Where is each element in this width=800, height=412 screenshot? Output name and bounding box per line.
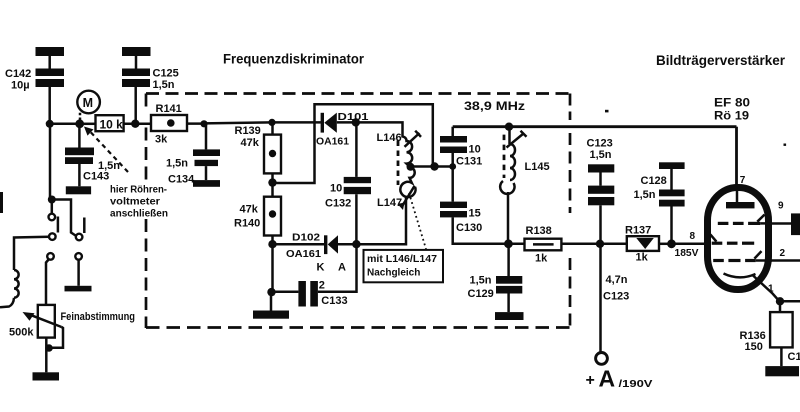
wire grid rail to tube	[453, 125, 737, 128]
dashed box left edge	[145, 94, 148, 329]
svg-text:C123: C123	[603, 291, 629, 303]
wire C133 node to ground	[270, 292, 273, 310]
wire divider to riser	[273, 104, 433, 183]
svg-text:1,5n: 1,5n	[153, 79, 175, 91]
potentiometer 500k	[23, 305, 62, 338]
wire R137 to C128 node	[659, 243, 672, 246]
ground above C142	[36, 47, 65, 56]
switch contact E	[75, 253, 82, 260]
node A junction	[46, 120, 54, 128]
resistor R139	[264, 135, 281, 174]
ground below contact E	[65, 286, 92, 292]
wire R138 to C123 node	[561, 243, 600, 246]
wire tap to C131 C130 node	[411, 165, 453, 168]
svg-text:47k: 47k	[240, 204, 259, 216]
svg-text:R140: R140	[234, 217, 260, 229]
junction D102 node	[268, 240, 276, 248]
switch blade left	[57, 217, 60, 233]
label C134 value	[166, 157, 195, 185]
svg-text:1,5n: 1,5n	[634, 189, 656, 201]
wire R139 to R140	[271, 173, 274, 196]
junction cathode node	[776, 297, 784, 305]
wire ground to C125	[135, 56, 138, 69]
tube grid g1	[713, 251, 772, 262]
svg-text:1k: 1k	[636, 252, 649, 264]
svg-text:C123: C123	[587, 137, 613, 149]
label R139 value	[235, 125, 261, 149]
wire ground to C128	[670, 169, 673, 190]
wire D102 node row	[273, 243, 325, 246]
svg-text:OA161: OA161	[286, 248, 321, 260]
svg-text:38,9 MHz: 38,9 MHz	[464, 101, 525, 113]
junction C128 node	[667, 239, 676, 248]
resistor 10k box	[96, 115, 124, 132]
svg-text:C142: C142	[5, 68, 31, 80]
wire rail to R139 node	[204, 122, 273, 123]
svg-text:R141: R141	[156, 103, 182, 115]
junction C123 node	[596, 240, 604, 248]
svg-text:Bildträgerverstärker: Bildträgerverstärker	[656, 53, 786, 68]
switch contact B	[49, 233, 56, 240]
label C131 value	[456, 144, 482, 168]
terminal +A	[596, 353, 608, 365]
svg-text:1,5n: 1,5n	[470, 274, 492, 286]
junction C133 node	[267, 288, 275, 296]
svg-text:C125: C125	[153, 67, 179, 79]
junction C134 node	[200, 120, 207, 127]
svg-text:C12: C12	[788, 351, 800, 363]
svg-text:185V: 185V	[675, 248, 699, 259]
inductor L145	[500, 127, 526, 194]
junction C129 node	[504, 239, 513, 248]
wire L145 to bottom rail	[507, 192, 510, 244]
wire C129 stem	[507, 244, 510, 276]
junction C131 C130	[449, 163, 456, 170]
wire R140 to D102 node	[271, 236, 274, 245]
wire C131 top to rail	[451, 127, 454, 136]
svg-text:150: 150	[745, 341, 763, 353]
svg-text:10: 10	[469, 144, 481, 156]
svg-text:A: A	[599, 366, 616, 392]
wire C142 to node A	[48, 87, 51, 124]
wire C132 to D102 node	[355, 194, 358, 244]
label C125 value	[153, 67, 179, 91]
svg-text:10: 10	[330, 183, 342, 195]
svg-text:R137: R137	[625, 225, 651, 237]
tube grid g2	[710, 234, 754, 244]
label D101 type	[316, 111, 369, 148]
wire node M down to C143	[78, 124, 81, 148]
adjustment core dashed L146 L147	[397, 141, 400, 186]
label C128 value	[634, 175, 667, 201]
ground below R140	[253, 311, 289, 319]
svg-text:1: 1	[768, 284, 774, 295]
meter point M	[77, 91, 100, 121]
svg-text:D102: D102	[292, 231, 320, 243]
svg-text:47k: 47k	[241, 137, 260, 149]
wire cathode node to right edge	[780, 300, 800, 303]
ground above C128	[659, 162, 685, 169]
wire D101 to C132 node	[337, 121, 356, 124]
wire pin 2 to right edge	[770, 259, 800, 262]
diode D102	[324, 235, 338, 254]
svg-text:15: 15	[469, 208, 481, 220]
svg-text:4,7n: 4,7n	[606, 274, 628, 286]
diode D101	[321, 113, 337, 133]
dashed arrow to measuring node	[84, 127, 128, 173]
label R141 value	[155, 103, 182, 146]
wire cathode node to R136	[779, 301, 782, 312]
junction R139 R140 divider	[268, 178, 276, 186]
wire potentiometer wiper tap	[49, 327, 63, 348]
svg-text:C129: C129	[468, 288, 494, 300]
label C130 value	[456, 208, 482, 235]
wire C132 stem	[355, 122, 358, 176]
inductor L146	[403, 131, 422, 167]
wire C133 right lead	[318, 244, 357, 292]
capacitor C133	[298, 281, 318, 307]
wire to R139	[271, 122, 274, 134]
capacitor C131	[440, 136, 467, 153]
wire C125 down to rail	[134, 87, 137, 124]
capacitor C128	[659, 190, 685, 207]
svg-text:C132: C132	[325, 198, 351, 210]
wire C130 top stem	[451, 167, 454, 202]
label D102 type	[286, 231, 321, 259]
wire node to R137	[600, 243, 627, 246]
capacitor C125	[122, 69, 150, 88]
note box mit L146/L147 Nachgleich	[364, 250, 444, 282]
svg-text:C133: C133	[321, 295, 347, 307]
label C132 value	[325, 183, 351, 210]
svg-text:mit L146/L147: mit L146/L147	[367, 254, 437, 265]
junction D102 anode node	[352, 240, 360, 248]
junction L145 top	[505, 123, 513, 131]
svg-text:2: 2	[780, 248, 786, 259]
svg-text:C128: C128	[641, 175, 667, 187]
label C129 value	[468, 274, 494, 300]
wire pin 9 to edge capacitor	[770, 222, 791, 225]
speck dot left of EF80	[605, 110, 609, 113]
svg-text:9: 9	[778, 200, 784, 211]
svg-text:hier Röhren-: hier Röhren-	[110, 184, 167, 195]
label R140 value	[234, 204, 260, 230]
capacitor C132	[344, 177, 371, 194]
wire coil to left edge	[0, 298, 14, 308]
tube anode	[726, 191, 755, 208]
tube cathode	[724, 274, 780, 302]
wire contact E to ground	[77, 260, 80, 286]
node M junction	[75, 119, 84, 128]
wire C129 to ground	[507, 294, 510, 313]
svg-text:L145: L145	[525, 161, 550, 173]
tube grid g3	[718, 215, 772, 225]
svg-text:1,5n: 1,5n	[590, 149, 612, 161]
svg-text:1k: 1k	[535, 253, 548, 265]
wire C143 to ground	[78, 164, 81, 186]
speck dot right	[784, 144, 787, 146]
wire C123 to node	[599, 205, 602, 244]
switch contact D	[47, 253, 54, 260]
resistor R136	[770, 312, 793, 347]
svg-text:3k: 3k	[155, 134, 168, 146]
junction L146 L147 tap	[407, 163, 415, 171]
clipped capacitor at right edge	[791, 213, 800, 235]
svg-text:A: A	[338, 261, 346, 273]
adjustment core dashed L145	[503, 135, 506, 178]
resistor R137	[627, 236, 659, 251]
wire node to tube pin 8	[672, 243, 707, 246]
svg-text:OA161: OA161	[316, 136, 349, 148]
wire ground to C123	[599, 173, 602, 186]
note hier Röhrenvoltmeter anschließen	[110, 184, 168, 219]
svg-text:8: 8	[690, 231, 696, 242]
wire rail to D101	[273, 121, 321, 124]
svg-text:K: K	[317, 261, 325, 273]
svg-text:10 k: 10 k	[100, 118, 124, 132]
capacitor C130	[440, 202, 467, 218]
wire node M to 10k	[80, 123, 96, 126]
capacitor C134	[193, 149, 220, 166]
wire C128 to node	[670, 207, 673, 244]
wire contact B to coil	[14, 237, 49, 270]
switch contact C	[76, 234, 83, 241]
clipped lead at left edge	[0, 192, 3, 213]
junction R139 top	[268, 119, 275, 126]
switch blade right	[83, 218, 86, 234]
junction riser tap	[430, 162, 438, 170]
label EF 80 Rö 19	[714, 98, 750, 123]
junction C132 node	[352, 118, 360, 126]
ground above C123	[588, 164, 614, 172]
junction wiper to bottom lead	[45, 344, 53, 352]
ground below C134	[193, 180, 220, 187]
svg-text:Nachgleich: Nachgleich	[367, 268, 420, 279]
label R136 value	[740, 330, 766, 353]
ground below potentiometer	[33, 372, 60, 380]
wire node A to node M	[50, 123, 80, 126]
ground below C143	[66, 186, 91, 194]
svg-text:anschließen: anschließen	[110, 208, 168, 219]
wire C131 bottom stem	[451, 153, 454, 167]
svg-text:10µ: 10µ	[11, 79, 30, 91]
label C133 value	[319, 279, 348, 307]
label R137 value	[625, 225, 651, 264]
resistor R141	[151, 115, 187, 131]
svg-text:C130: C130	[456, 222, 482, 234]
capacitor C142	[36, 69, 65, 88]
wire node to C133 node	[271, 244, 274, 292]
capacitor C129	[496, 276, 522, 294]
switch contact A	[49, 214, 56, 221]
junction switch top	[48, 196, 56, 204]
svg-text:M: M	[83, 96, 93, 110]
svg-text:C134: C134	[168, 173, 195, 185]
inductor L147	[398, 167, 416, 210]
label +A /190V	[586, 366, 653, 392]
svg-text:voltmeter: voltmeter	[110, 196, 160, 207]
wire contact D to potentiometer	[46, 259, 49, 305]
wire C132 node to L146	[356, 122, 403, 137]
ground below C129	[495, 312, 524, 320]
ground below R136	[765, 366, 799, 376]
svg-text:C131: C131	[456, 155, 482, 167]
svg-text:/190V: /190V	[619, 378, 653, 390]
label R138 value	[526, 225, 552, 265]
label 4,7n C123	[603, 274, 629, 303]
label C123 value	[587, 137, 613, 161]
svg-text:Feinabstimmung: Feinabstimmung	[61, 311, 136, 323]
capacitor C143	[65, 148, 94, 165]
wire R136 to ground	[780, 347, 783, 366]
dotted pointer to Nachgleich box	[409, 193, 426, 249]
svg-text:R138: R138	[526, 225, 552, 237]
svg-text:C143: C143	[83, 171, 109, 183]
svg-text:2: 2	[319, 279, 325, 291]
label C143 value	[83, 160, 120, 183]
wire node A down to switch	[50, 124, 52, 200]
wire junction to right switch branch	[52, 200, 76, 236]
wire potentiometer to ground	[45, 338, 48, 373]
capacitor C123	[588, 186, 614, 206]
svg-text:L147: L147	[377, 197, 402, 209]
wire C123 node to terminal A	[599, 244, 602, 353]
wire D102 to junction	[338, 243, 356, 246]
label C142 value	[5, 68, 31, 91]
svg-text:500k: 500k	[9, 326, 34, 338]
svg-text:R139: R139	[235, 125, 261, 137]
inductor coil left	[14, 270, 19, 298]
wire C130 to bottom rail	[453, 217, 509, 243]
resistor R138	[525, 239, 562, 251]
tube EF80 envelope	[708, 188, 769, 290]
junction C125 node	[131, 120, 139, 128]
wire 10k to R141	[124, 123, 151, 126]
wire C133 left lead	[272, 291, 299, 294]
svg-text:1,5n: 1,5n	[166, 157, 188, 169]
wire ground to C142	[48, 56, 51, 69]
dashed box Frequenzdiskriminator top edge	[146, 92, 570, 95]
svg-text:EF 80: EF 80	[714, 98, 750, 110]
wire junction to contact A	[51, 200, 54, 214]
dashed box bottom edge	[146, 326, 570, 329]
svg-text:+: +	[586, 372, 595, 389]
wire C134 to ground	[205, 166, 208, 180]
wire rail corner to tube pin 7	[735, 127, 738, 185]
ground above C125	[122, 47, 151, 56]
wire R141 to C134 node	[187, 122, 204, 125]
label D102 K A	[317, 261, 347, 273]
wire junction to R138	[508, 243, 524, 246]
resistor R140	[264, 197, 281, 236]
svg-text:Frequenzdiskriminator: Frequenzdiskriminator	[223, 52, 365, 67]
wire junction to L147 stem	[356, 197, 406, 244]
dashed box right edge	[569, 94, 572, 328]
svg-text:Rö 19: Rö 19	[714, 111, 749, 123]
wire C134 stem	[205, 124, 208, 150]
